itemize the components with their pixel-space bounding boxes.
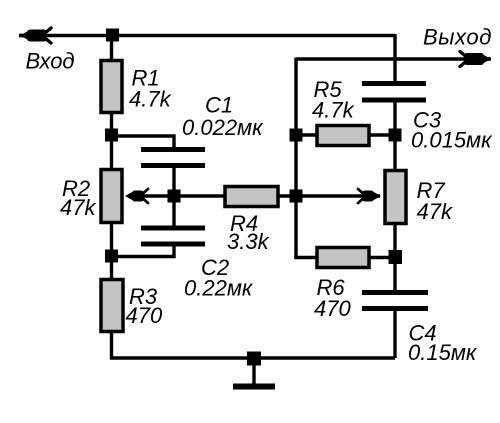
wire output node down to R6 bbox=[296, 256, 317, 258]
capacitor C1 bbox=[141, 150, 205, 166]
wiper arrow of R7 bbox=[358, 189, 381, 203]
node A junction bbox=[105, 129, 118, 142]
resistor R6 bbox=[317, 248, 369, 268]
wire R1 to R2 bbox=[110, 112, 113, 171]
svg-text:47k: 47k bbox=[417, 199, 453, 224]
ground bbox=[233, 358, 275, 387]
resistor R5 bbox=[317, 126, 369, 146]
svg-text:4.7k: 4.7k bbox=[312, 98, 355, 123]
wire R7 to node D bbox=[393, 222, 396, 292]
wire output node to R5 bbox=[296, 133, 317, 136]
wire node A to C1 bbox=[112, 136, 175, 149]
svg-text:0.22мк: 0.22мк bbox=[184, 276, 254, 301]
capacitor C3 bbox=[362, 84, 426, 101]
resistor R3 bbox=[101, 280, 123, 332]
node C junction bbox=[389, 129, 402, 142]
node ground junction bbox=[247, 352, 261, 366]
svg-text:470: 470 bbox=[126, 303, 163, 328]
capacitor C4 bbox=[362, 293, 428, 309]
wire top-right vertical to C3 bbox=[393, 34, 396, 83]
svg-text:0.022мк: 0.022мк bbox=[182, 115, 264, 140]
wire C3 to node C to R7 bbox=[393, 101, 396, 172]
wire wiper junction to C2 bbox=[172, 196, 175, 227]
wire R4 to wiper of R7 bbox=[278, 194, 380, 197]
svg-text:47k: 47k bbox=[60, 195, 96, 220]
wire wiper line R2 to R4 bbox=[132, 194, 224, 197]
resistor R1 bbox=[101, 61, 122, 113]
svg-text:3.3k: 3.3k bbox=[227, 229, 270, 254]
wire left vertical input to R1 bbox=[110, 34, 113, 62]
svg-text:470: 470 bbox=[314, 296, 351, 321]
wire top rail bbox=[19, 34, 395, 37]
svg-text:0.15мк: 0.15мк bbox=[408, 340, 478, 365]
output arrow bbox=[460, 52, 491, 67]
wire R6 to node D bbox=[369, 256, 395, 259]
node D junction bbox=[389, 250, 403, 264]
svg-text:4.7k: 4.7k bbox=[129, 87, 172, 112]
wire C1 to wiper junction bbox=[172, 166, 175, 198]
node wiper junction bbox=[168, 190, 181, 203]
node input junction bbox=[106, 29, 119, 42]
wiper arrow of R2 bbox=[125, 189, 148, 203]
resistor R4 bbox=[225, 187, 278, 207]
potentiometer R2 bbox=[101, 170, 122, 223]
node R4-right junction bbox=[290, 190, 303, 203]
wire R5 to node C bbox=[369, 133, 395, 136]
wire C4 to ground rail bbox=[393, 309, 396, 358]
wire C2 to node B bbox=[112, 244, 175, 257]
input arrow bbox=[19, 28, 51, 43]
svg-text:Выход: Выход bbox=[423, 25, 492, 50]
wire output-node vertical bbox=[294, 58, 297, 258]
node B junction bbox=[105, 250, 118, 263]
svg-text:0.015мк: 0.015мк bbox=[411, 128, 493, 153]
svg-text:Вход: Вход bbox=[26, 49, 75, 74]
potentiometer R7 bbox=[385, 171, 406, 224]
wire R2 to node B to R3 bbox=[110, 222, 113, 281]
wire R3 to ground rail bbox=[112, 330, 396, 358]
node R5-left junction bbox=[290, 129, 303, 142]
svg-text:C1: C1 bbox=[205, 93, 233, 118]
capacitor C2 bbox=[141, 228, 205, 244]
wire output rail bbox=[296, 57, 490, 60]
